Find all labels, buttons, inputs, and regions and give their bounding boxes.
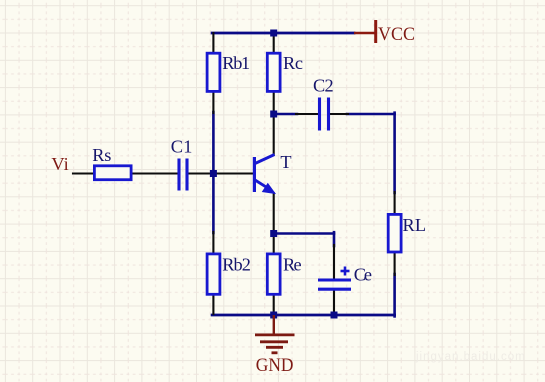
pin Ce bottom: [333, 291, 335, 314]
wire Ce column upper: [333, 232, 336, 246]
pin RL top: [394, 192, 396, 216]
svg-text:C2: C2: [313, 75, 334, 95]
resistor Rb1: [207, 53, 220, 91]
junction node emitter: [270, 230, 277, 237]
svg-text:jingyan.baidu.com: jingyan.baidu.com: [415, 351, 526, 363]
transistor T (NPN): [254, 155, 274, 193]
pin Rb2 bottom: [212, 293, 214, 314]
resistor RL: [388, 214, 401, 252]
junction node ground: [270, 312, 277, 319]
svg-text:VCC: VCC: [378, 24, 415, 45]
pin C2 right: [330, 113, 348, 115]
resistor Rb2: [207, 254, 220, 294]
svg-text:T: T: [280, 152, 291, 172]
pin Rb1 bottom: [212, 92, 214, 113]
svg-text:RL: RL: [403, 215, 427, 235]
wire base column Rb1-Rb2: [212, 112, 215, 233]
svg-text:Re: Re: [283, 254, 302, 274]
pin Rb1 top: [212, 33, 214, 53]
svg-text:Rb2: Rb2: [222, 254, 251, 274]
wire C2 output row: [347, 113, 395, 116]
pin Re top: [273, 234, 275, 255]
junction node Ce ground: [331, 312, 338, 319]
pin Re bottom: [273, 293, 275, 314]
capacitor C1: [179, 159, 187, 191]
svg-text:Rc: Rc: [283, 53, 303, 73]
pin Rb2 top: [212, 232, 214, 255]
svg-text:Rb1: Rb1: [222, 53, 250, 73]
svg-text:Ce: Ce: [354, 265, 372, 285]
resistor Rc: [267, 53, 280, 91]
pin Rc top: [273, 33, 275, 53]
wire output column to RL: [393, 113, 396, 193]
pin base: [215, 172, 253, 174]
wire bottom rail: [212, 314, 395, 317]
pin Rc bottom / collector pin: [273, 92, 275, 155]
svg-text:GND: GND: [256, 356, 294, 376]
pin RL bottom: [394, 251, 396, 275]
junction node collector rail: [270, 30, 277, 37]
wire C1 to base node: [189, 172, 213, 174]
svg-text:Rs: Rs: [92, 145, 111, 165]
resistor Rs: [94, 166, 131, 180]
wire Rs to C1: [132, 172, 177, 174]
resistor Re: [267, 254, 280, 294]
wire emitter row to Ce: [274, 232, 334, 235]
wire Vi lead: [73, 172, 94, 174]
pin C2 left: [296, 113, 318, 115]
wire collector to C2: [274, 113, 297, 116]
ground symbol: [255, 315, 295, 353]
svg-text:C1: C1: [171, 137, 193, 157]
junction node collector/C2: [270, 111, 277, 118]
svg-text:Vi: Vi: [51, 154, 68, 174]
wire RL bottom column: [393, 274, 396, 316]
wire top rail VCC: [212, 32, 354, 35]
capacitor C2: [320, 98, 329, 131]
VCC power symbol: [354, 20, 376, 43]
pin Ce top: [333, 245, 335, 278]
capacitor Ce (polarized): [318, 267, 351, 290]
pin emitter: [273, 193, 275, 233]
junction node base: [210, 170, 217, 177]
